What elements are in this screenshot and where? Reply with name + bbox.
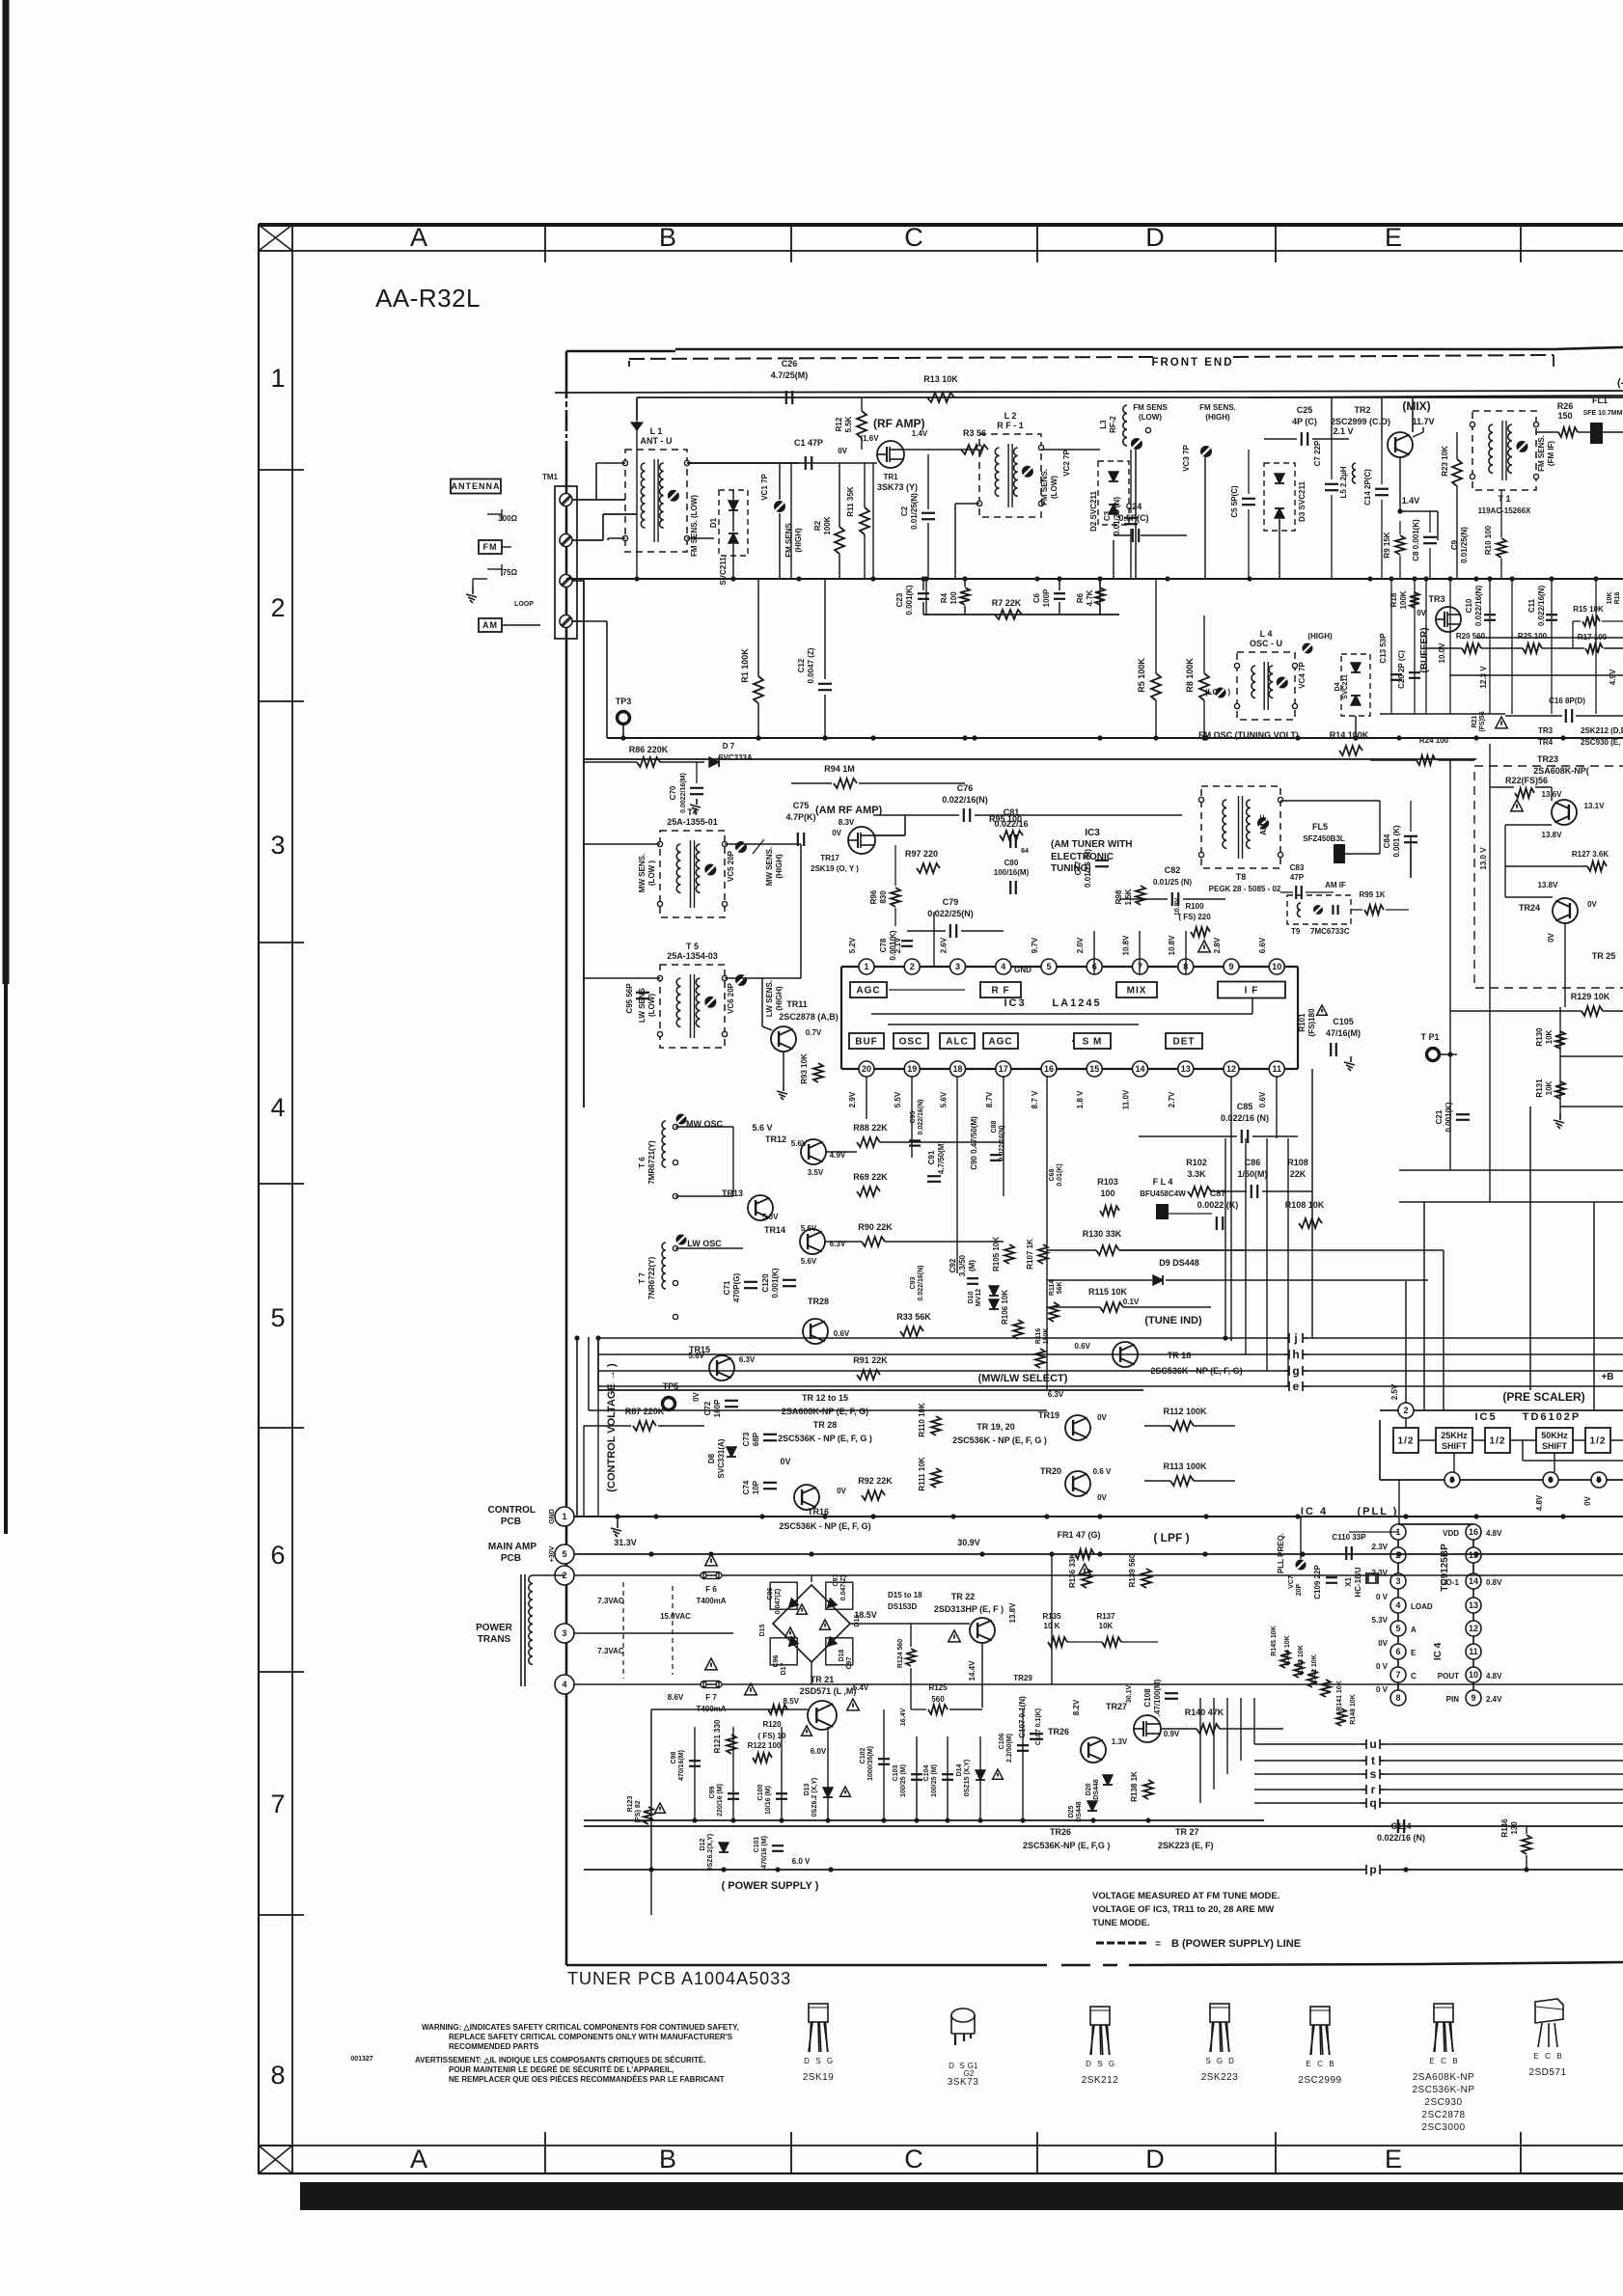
svg-text:C72: C72 <box>703 1401 712 1415</box>
svg-text:C77: C77 <box>1074 861 1083 875</box>
svg-text:R87 220K: R87 220K <box>625 1407 665 1416</box>
svg-text:0V: 0V <box>780 1457 790 1466</box>
svg-text:FM OSC (TUNING VOLT): FM OSC (TUNING VOLT) <box>1198 730 1299 740</box>
svg-text:14: 14 <box>1469 1576 1478 1586</box>
svg-text:R16: R16 <box>1614 591 1621 604</box>
svg-text:D10: D10 <box>968 1291 975 1303</box>
svg-text:u: u <box>1369 1737 1376 1751</box>
svg-text:2SC536K-NP (E, F,G ): 2SC536K-NP (E, F,G ) <box>1023 1841 1110 1850</box>
svg-text:0.001(K): 0.001(K) <box>1444 1102 1453 1132</box>
svg-text:100: 100 <box>1100 1189 1114 1198</box>
svg-text:R113 100K: R113 100K <box>1163 1462 1207 1471</box>
svg-text:( FS) 220: ( FS) 220 <box>1178 913 1211 921</box>
svg-text:2: 2 <box>1403 1406 1408 1415</box>
svg-text:R143 10K: R143 10K <box>1298 1645 1305 1676</box>
svg-text:TR3: TR3 <box>1538 726 1554 735</box>
svg-text:I F: I F <box>1245 986 1259 997</box>
svg-text:C95: C95 <box>910 1110 917 1123</box>
svg-text:13.1V: 13.1V <box>1584 802 1606 810</box>
svg-text:0.8V: 0.8V <box>1486 1578 1502 1587</box>
svg-text:D: D <box>1145 2145 1165 2173</box>
svg-text:C83: C83 <box>1290 863 1305 872</box>
svg-text:C103: C103 <box>893 1765 899 1782</box>
svg-text:R86 220K: R86 220K <box>629 745 669 754</box>
svg-text:C9: C9 <box>1450 539 1459 550</box>
svg-text:R F: R F <box>991 986 1009 997</box>
svg-text:NE REMPLACER QUE OES PIÈCES RE: NE REMPLACER QUE OES PIÈCES RECOMMANDÉES… <box>449 2075 725 2084</box>
svg-text:13.8V: 13.8V <box>1008 1602 1017 1624</box>
svg-text:3: 3 <box>1395 1576 1400 1586</box>
svg-text:0.022/16: 0.022/16 <box>994 819 1028 829</box>
svg-text:0.022/16 (N): 0.022/16 (N) <box>1221 1113 1269 1123</box>
svg-text:VC2 7P: VC2 7P <box>1062 450 1071 477</box>
svg-text:C: C <box>1317 2060 1323 2068</box>
svg-text:VDD: VDD <box>1443 1529 1459 1538</box>
svg-text:3SK73 (Y): 3SK73 (Y) <box>877 482 918 492</box>
svg-text:R9 15K: R9 15K <box>1383 532 1391 558</box>
svg-text:7: 7 <box>1395 1670 1400 1680</box>
svg-text:R122 100: R122 100 <box>748 1741 782 1750</box>
svg-text:D18: D18 <box>839 1649 845 1661</box>
svg-text:SVC211: SVC211 <box>1342 674 1349 699</box>
svg-text:119AC-15266X: 119AC-15266X <box>1478 506 1531 515</box>
svg-text:C88: C88 <box>991 1120 998 1133</box>
svg-text:C12: C12 <box>797 658 806 672</box>
svg-text:2.9V: 2.9V <box>848 1091 857 1107</box>
svg-text:R3 56: R3 56 <box>963 428 986 438</box>
svg-text:C95 56P: C95 56P <box>625 983 634 1014</box>
svg-text:C92: C92 <box>949 1258 957 1272</box>
svg-text:R148 10K: R148 10K <box>1350 1694 1357 1725</box>
svg-text:TUNER PCB A1004A5033: TUNER PCB A1004A5033 <box>567 1969 791 1988</box>
svg-text:(M): (M) <box>968 1260 977 1271</box>
svg-text:(FM IF): (FM IF) <box>1547 441 1555 467</box>
svg-text:2SK19: 2SK19 <box>803 2072 835 2083</box>
svg-text:AGC: AGC <box>856 986 880 997</box>
svg-text:TR 25: TR 25 <box>1592 951 1616 961</box>
svg-text:RECOMMENDED PARTS: RECOMMENDED PARTS <box>449 2042 539 2051</box>
svg-text:10K: 10K <box>1607 592 1613 605</box>
svg-text:T 5: T 5 <box>686 942 699 951</box>
svg-text:IC3: IC3 <box>1085 828 1100 838</box>
svg-text:4: 4 <box>562 1680 566 1689</box>
svg-text:(LOW): (LOW) <box>1139 413 1162 422</box>
svg-text:R124 560: R124 560 <box>897 1639 904 1668</box>
svg-text:T9: T9 <box>1291 927 1301 936</box>
svg-text:2.1 V: 2.1 V <box>1333 426 1353 436</box>
svg-text:VC5 20P: VC5 20P <box>727 850 735 882</box>
svg-text:2SC930 (E, F ): 2SC930 (E, F ) <box>1581 738 1623 747</box>
svg-text:5.6V: 5.6V <box>940 1091 949 1107</box>
svg-text:2SA608K-NP(: 2SA608K-NP( <box>1533 766 1589 776</box>
svg-text:2SC930: 2SC930 <box>1424 2097 1462 2108</box>
svg-text:4: 4 <box>1001 962 1005 971</box>
svg-text:R97 220: R97 220 <box>905 849 938 859</box>
svg-text:C106: C106 <box>999 1734 1005 1750</box>
svg-text:(-: (- <box>1617 377 1623 389</box>
svg-text:10K: 10K <box>1099 1622 1114 1630</box>
svg-text:4.8V: 4.8V <box>1486 1672 1502 1681</box>
svg-text:C: C <box>904 223 923 252</box>
svg-text:2SC3000: 2SC3000 <box>1421 2122 1465 2133</box>
svg-text:G: G <box>1217 2057 1223 2065</box>
svg-text:D8: D8 <box>707 1453 716 1463</box>
svg-text:TR3: TR3 <box>1428 594 1444 604</box>
svg-text:0.01/25(N): 0.01/25(N) <box>1460 527 1469 563</box>
svg-text:47P: 47P <box>1290 873 1305 882</box>
svg-text:2.4V: 2.4V <box>1486 1695 1502 1704</box>
svg-text:R88 22K: R88 22K <box>853 1123 888 1133</box>
svg-text:C86: C86 <box>1245 1158 1261 1167</box>
svg-text:2SA608K-NP: 2SA608K-NP <box>1413 2072 1474 2083</box>
svg-text:R144 10K: R144 10K <box>1284 1635 1291 1666</box>
svg-text:0.1V: 0.1V <box>1123 1298 1140 1306</box>
svg-text:FM SENS.: FM SENS. <box>1040 469 1049 506</box>
svg-text:R100: R100 <box>1185 902 1204 911</box>
svg-text:0.022/16(N): 0.022/16(N) <box>918 1266 924 1301</box>
svg-text:R92 22K: R92 22K <box>858 1476 893 1486</box>
svg-text:2SC2878: 2SC2878 <box>1421 2110 1465 2120</box>
svg-text:10: 10 <box>1272 962 1281 971</box>
svg-text:X1: X1 <box>1344 1577 1353 1587</box>
svg-text:18: 18 <box>952 1064 962 1074</box>
svg-text:12.3 V: 12.3 V <box>1479 666 1488 689</box>
svg-text:17: 17 <box>999 1064 1008 1074</box>
svg-text:C91: C91 <box>927 1150 936 1164</box>
svg-text:12: 12 <box>1469 1624 1478 1633</box>
svg-text:130: 130 <box>1510 1821 1519 1835</box>
svg-text:3: 3 <box>270 831 285 860</box>
svg-text:1.8 V: 1.8 V <box>1076 1090 1085 1108</box>
svg-text:TR26: TR26 <box>1048 1727 1069 1736</box>
svg-text:10K: 10K <box>1545 1080 1554 1095</box>
svg-text:C7 22P: C7 22P <box>1313 440 1322 466</box>
svg-text:0.001 (K): 0.001 (K) <box>1392 825 1401 858</box>
svg-text:7NR6722(Y): 7NR6722(Y) <box>647 1256 656 1299</box>
svg-text:(FS) 82: (FS) 82 <box>635 1800 642 1822</box>
svg-text:R130: R130 <box>1535 1027 1544 1047</box>
svg-text:0.0022 (K): 0.0022 (K) <box>1197 1200 1239 1210</box>
svg-text:3: 3 <box>562 1628 566 1638</box>
svg-text:s: s <box>1370 1767 1377 1781</box>
svg-text:C96: C96 <box>767 1587 774 1599</box>
svg-text:TR23: TR23 <box>1537 754 1558 764</box>
svg-text:20: 20 <box>862 1064 871 1074</box>
svg-text:13: 13 <box>1469 1600 1478 1610</box>
svg-text:CONTROL: CONTROL <box>488 1505 536 1516</box>
svg-text:G2: G2 <box>964 2069 975 2078</box>
svg-text:0.6V: 0.6V <box>1075 1342 1091 1351</box>
svg-text:SHIFT: SHIFT <box>1442 1441 1468 1451</box>
svg-text:0.0047 (Z): 0.0047 (Z) <box>807 647 815 683</box>
svg-text:100K: 100K <box>1399 590 1408 609</box>
svg-text:8.2V: 8.2V <box>1072 1699 1081 1715</box>
svg-text:1/2: 1/2 <box>1398 1436 1415 1447</box>
svg-text:C13 53P: C13 53P <box>1379 633 1388 664</box>
svg-text:R138 1K: R138 1K <box>1130 1771 1139 1802</box>
svg-text:R26: R26 <box>1557 401 1574 411</box>
svg-text:TR29: TR29 <box>1013 1674 1032 1682</box>
svg-text:2SC2999: 2SC2999 <box>1298 2075 1341 2086</box>
svg-text:R4: R4 <box>940 592 949 603</box>
svg-text:2.3V: 2.3V <box>1372 1543 1389 1551</box>
svg-text:(LOW ): (LOW ) <box>647 861 656 887</box>
svg-text:C6: C6 <box>1032 592 1041 603</box>
svg-text:4.7/50(M): 4.7/50(M) <box>937 1141 946 1175</box>
svg-text:0.001(K): 0.001(K) <box>771 1268 780 1298</box>
svg-text:C: C <box>1411 1672 1417 1681</box>
svg-text:VC1 7P: VC1 7P <box>760 474 769 501</box>
svg-text:R142 10K: R142 10K <box>1311 1654 1318 1685</box>
svg-text:16: 16 <box>1044 1064 1054 1074</box>
svg-text:(LOW): (LOW) <box>1050 476 1059 499</box>
svg-text:4.7/25(M): 4.7/25(M) <box>771 370 809 380</box>
svg-text:C109 22P: C109 22P <box>1313 1565 1322 1599</box>
svg-text:0V: 0V <box>1417 609 1426 617</box>
svg-text:2.7V: 2.7V <box>1168 1091 1176 1107</box>
svg-text:8.7V: 8.7V <box>985 1091 994 1107</box>
svg-text:IC5: IC5 <box>1474 1411 1497 1423</box>
svg-text:VC3 7P: VC3 7P <box>1182 445 1191 472</box>
svg-text:4.8V: 4.8V <box>1486 1529 1502 1538</box>
svg-text:0V: 0V <box>838 447 847 455</box>
svg-text:R110 10K: R110 10K <box>918 1403 926 1437</box>
svg-text:560: 560 <box>931 1695 945 1704</box>
svg-text:FM SENS.: FM SENS. <box>1537 435 1546 472</box>
svg-text:C93: C93 <box>910 1276 917 1289</box>
svg-text:470/16 (M): 470/16 (M) <box>761 1836 768 1869</box>
svg-text:19: 19 <box>907 1064 917 1074</box>
svg-text:0V: 0V <box>1583 1495 1592 1505</box>
svg-text:C16 8P(D): C16 8P(D) <box>1549 697 1585 705</box>
svg-text:R2: R2 <box>813 520 822 531</box>
svg-text:R146: R146 <box>1500 1818 1509 1838</box>
svg-text:BFU458C4W: BFU458C4W <box>1140 1189 1186 1198</box>
svg-text:C99: C99 <box>709 1786 716 1798</box>
svg-text:j: j <box>1293 1331 1297 1345</box>
svg-text:SVC211: SVC211 <box>719 557 728 586</box>
svg-text:F L 4: F L 4 <box>1153 1177 1173 1187</box>
svg-text:C105: C105 <box>1333 1017 1354 1026</box>
svg-text:AA-R32L: AA-R32L <box>375 284 481 313</box>
svg-text:R136 33K: R136 33K <box>1068 1553 1077 1588</box>
svg-text:FM SENS. (LOW): FM SENS. (LOW) <box>690 495 699 557</box>
svg-text:L 2: L 2 <box>1004 411 1017 421</box>
svg-text:D6V: D6V <box>1082 1782 1084 1784</box>
svg-text:2: 2 <box>270 593 285 622</box>
svg-text:0V: 0V <box>1378 1639 1388 1648</box>
svg-text:31.3V: 31.3V <box>614 1538 637 1547</box>
svg-text:5.6 V: 5.6 V <box>752 1123 772 1133</box>
svg-text:q: q <box>1369 1796 1376 1810</box>
svg-text:AM IF: AM IF <box>1325 881 1346 889</box>
svg-text:R13 10K: R13 10K <box>923 374 958 384</box>
svg-text:C85: C85 <box>1237 1102 1253 1111</box>
svg-text:8.6V: 8.6V <box>668 1693 684 1702</box>
svg-text:B: B <box>1452 2057 1457 2065</box>
svg-text:D13: D13 <box>804 1783 811 1795</box>
svg-text:C68: C68 <box>1049 1168 1056 1181</box>
svg-text:(LOW): (LOW) <box>647 994 656 1017</box>
svg-text:0.01(K): 0.01(K) <box>1057 1163 1063 1186</box>
svg-text:10.8V: 10.8V <box>1122 935 1131 956</box>
svg-text:R93 10K: R93 10K <box>800 1053 809 1084</box>
svg-text:0.022/16(N): 0.022/16(N) <box>1537 586 1546 627</box>
svg-text:POUR MAINTENIR LE DEGRÉ DE SÉC: POUR MAINTENIR LE DEGRÉ DE SÉCURITÉ DE L… <box>449 2065 674 2074</box>
svg-text:PIN: PIN <box>1446 1695 1460 1704</box>
svg-text:(RF AMP): (RF AMP) <box>873 417 925 430</box>
svg-text:(HIGH): (HIGH) <box>775 854 784 879</box>
svg-text:SHIFT: SHIFT <box>1542 1441 1568 1451</box>
svg-text:R114: R114 <box>1049 1280 1056 1296</box>
svg-text:TC9125BP: TC9125BP <box>1440 1544 1450 1592</box>
svg-text:R131: R131 <box>1535 1079 1544 1098</box>
svg-text:t: t <box>1371 1754 1375 1767</box>
svg-text:0.9V: 0.9V <box>1164 1730 1180 1738</box>
svg-text:0.01/25 (N): 0.01/25 (N) <box>1084 849 1092 888</box>
svg-text:R25 100: R25 100 <box>1518 632 1548 641</box>
svg-text:C82: C82 <box>1165 865 1181 875</box>
svg-text:14: 14 <box>1135 1064 1144 1074</box>
svg-text:2SC536K - NP (E, F, G ): 2SC536K - NP (E, F, G ) <box>778 1434 872 1443</box>
svg-text:AGC: AGC <box>988 1037 1012 1048</box>
svg-text:30.1V: 30.1V <box>1126 1685 1133 1704</box>
svg-text:2SC2878 (A,B): 2SC2878 (A,B) <box>779 1012 839 1022</box>
svg-text:AVERTISSEMENT: △IL INDIQUE LES: AVERTISSEMENT: △IL INDIQUE LES COMPOSANT… <box>415 2056 705 2064</box>
svg-text:(HIGH): (HIGH) <box>775 986 784 1011</box>
svg-text:SFZ450B3L: SFZ450B3L <box>1303 834 1345 843</box>
svg-text:(AM TUNER WITH: (AM TUNER WITH <box>1051 839 1132 850</box>
svg-text:R116: R116 <box>1035 1328 1042 1344</box>
svg-text:MIX: MIX <box>1127 986 1147 997</box>
svg-text:LOAD: LOAD <box>1411 1602 1433 1611</box>
svg-text:p: p <box>1369 1863 1376 1876</box>
svg-text:C75: C75 <box>793 801 810 810</box>
svg-text:4.7K: 4.7K <box>1086 589 1094 606</box>
svg-text:7: 7 <box>270 1790 285 1818</box>
svg-text:1.5K: 1.5K <box>1124 888 1133 905</box>
svg-text:R23 10K: R23 10K <box>1441 446 1449 477</box>
svg-text:0V: 0V <box>692 1391 701 1401</box>
svg-text:5.6V: 5.6V <box>689 1352 705 1360</box>
svg-text:C100: C100 <box>757 1785 764 1801</box>
svg-text:D 7: D 7 <box>723 742 735 751</box>
svg-text:D15: D15 <box>759 1624 766 1636</box>
svg-text:1.4V: 1.4V <box>912 429 928 438</box>
svg-text:C97: C97 <box>846 1656 853 1669</box>
svg-text:LW OSC: LW OSC <box>687 1239 722 1248</box>
svg-text:E: E <box>1385 223 1402 252</box>
svg-text:C90 0.47/50(M): C90 0.47/50(M) <box>970 1116 978 1170</box>
svg-text:1/50(M): 1/50(M) <box>1237 1169 1267 1179</box>
svg-text:ANT - U: ANT - U <box>641 436 673 446</box>
svg-text:6.0V: 6.0V <box>811 1747 827 1756</box>
svg-text:D2 SVC211: D2 SVC211 <box>1089 491 1098 532</box>
svg-text:g: g <box>1292 1364 1299 1378</box>
svg-text:(FS)56: (FS)56 <box>1479 711 1486 732</box>
svg-text:16.4V: 16.4V <box>900 1708 907 1727</box>
svg-text:1.3V: 1.3V <box>1112 1737 1128 1746</box>
svg-text:L 1: L 1 <box>650 426 663 436</box>
svg-text:R130 33K: R130 33K <box>1083 1229 1122 1239</box>
svg-text:470/16(M): 470/16(M) <box>678 1750 685 1781</box>
svg-text:10.8V: 10.8V <box>1174 898 1181 916</box>
svg-text:A: A <box>410 223 427 252</box>
svg-text:1/2: 1/2 <box>1590 1436 1607 1447</box>
svg-text:TR24: TR24 <box>1519 903 1540 913</box>
svg-text:TRANS: TRANS <box>478 1634 511 1645</box>
svg-text:( POWER SUPPLY ): ( POWER SUPPLY ) <box>722 1880 819 1892</box>
svg-text:100/16(M): 100/16(M) <box>994 868 1030 877</box>
svg-text:R20 560: R20 560 <box>1456 632 1486 641</box>
svg-text:S: S <box>1205 2057 1210 2065</box>
svg-text:FM: FM <box>483 542 498 552</box>
svg-text:A: A <box>410 2145 427 2173</box>
svg-text:6.6V: 6.6V <box>1258 937 1267 953</box>
svg-text:R69 22K: R69 22K <box>853 1172 888 1182</box>
svg-text:IC 4: IC 4 <box>1433 1642 1444 1660</box>
svg-text:h: h <box>1292 1348 1299 1361</box>
svg-text:C24: C24 <box>1126 502 1142 511</box>
svg-text:1000/35(M): 1000/35(M) <box>867 1746 874 1781</box>
svg-text:12: 12 <box>1226 1064 1236 1074</box>
svg-text:B: B <box>659 223 676 252</box>
svg-text:5.0V: 5.0V <box>762 1213 779 1221</box>
svg-text:0.01/25(N): 0.01/25(N) <box>910 493 919 530</box>
svg-text:PLL PREQ.: PLL PREQ. <box>1277 1533 1285 1573</box>
svg-text:5.5V: 5.5V <box>894 1091 902 1107</box>
svg-text:B (POWER SUPPLY) LINE: B (POWER SUPPLY) LINE <box>1171 1938 1301 1950</box>
svg-text:10/16 (M): 10/16 (M) <box>765 1786 772 1815</box>
svg-text:0.5P(C): 0.5P(C) <box>1118 513 1148 523</box>
svg-text:C73: C73 <box>742 1432 751 1446</box>
svg-text:150: 150 <box>1557 411 1572 421</box>
svg-text:8: 8 <box>270 2061 285 2090</box>
svg-text:(MW/LW SELECT): (MW/LW SELECT) <box>978 1373 1068 1384</box>
svg-text:0.022/16(N): 0.022/16(N) <box>1474 586 1483 627</box>
svg-text:7.3VAC: 7.3VAC <box>597 1647 624 1655</box>
svg-text:D: D <box>804 2057 810 2065</box>
svg-text:R91 22K: R91 22K <box>853 1355 888 1365</box>
svg-text:R145 10K: R145 10K <box>1271 1626 1278 1656</box>
svg-text:TR14: TR14 <box>764 1225 785 1235</box>
svg-text:13: 13 <box>1181 1064 1191 1074</box>
svg-text:C: C <box>904 2145 923 2173</box>
svg-text:6: 6 <box>270 1541 285 1570</box>
svg-text:TR2: TR2 <box>1354 405 1370 415</box>
svg-text:R125: R125 <box>928 1683 948 1692</box>
svg-text:68P: 68P <box>752 1432 760 1446</box>
svg-text:7MR6721(Y): 7MR6721(Y) <box>647 1140 656 1185</box>
svg-text:C101: C101 <box>754 1837 760 1853</box>
svg-text:2SK212 (D,E ): 2SK212 (D,E ) <box>1581 726 1623 735</box>
svg-text:TP3: TP3 <box>616 697 632 706</box>
svg-text:R11 35K: R11 35K <box>846 486 855 516</box>
svg-text:HC-18/U: HC-18/U <box>1354 1567 1362 1597</box>
svg-text:LA1245: LA1245 <box>1052 998 1101 1009</box>
svg-text:MW SENS.: MW SENS. <box>765 847 774 886</box>
svg-text:5: 5 <box>562 1549 566 1559</box>
svg-text:D1: D1 <box>709 517 718 528</box>
svg-text:(CONTROL VOLTAGE → ): (CONTROL VOLTAGE → ) <box>606 1363 618 1492</box>
svg-text:1/2: 1/2 <box>1490 1436 1506 1447</box>
svg-text:(HIGH): (HIGH) <box>1307 632 1333 641</box>
svg-text:8: 8 <box>1395 1693 1400 1703</box>
svg-text:TM1: TM1 <box>542 473 559 481</box>
svg-text:R102: R102 <box>1186 1158 1207 1167</box>
svg-text:2: 2 <box>910 962 915 971</box>
svg-text:REPLACE SAFETY CRITICAL COMPON: REPLACE SAFETY CRITICAL COMPONENTS ONLY … <box>449 2033 733 2041</box>
